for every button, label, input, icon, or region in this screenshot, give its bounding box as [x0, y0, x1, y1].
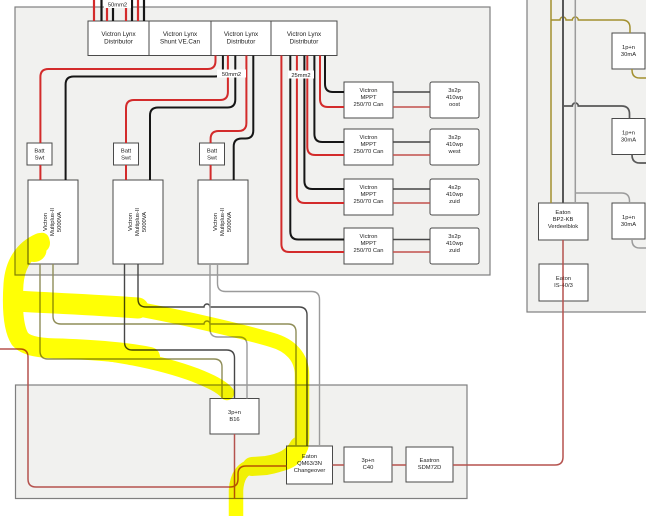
wire DC+ distributor to MPPT U4: [320, 56, 344, 108]
svg-text:50mm2: 50mm2: [108, 3, 127, 9]
wire DC+ distributor to battery switch S1: [40, 56, 215, 144]
wire battery positive 1: [93, 0, 95, 21]
wire battery negative 1: [100, 0, 102, 21]
svg-text:Victron LynxDistributor: Victron LynxDistributor: [224, 31, 259, 46]
inverter U1 Victron Multiplus-II: [28, 180, 78, 264]
battery switch S2: [114, 143, 139, 165]
PV array PV4 zuid: [430, 228, 479, 264]
RCD breaker F1 1p+n 30mA: [612, 33, 645, 69]
wire AC inverter U2 to breaker B16: [125, 264, 235, 399]
energy meter Eastron SDM72D: [406, 447, 453, 482]
svg-text:25mm2: 25mm2: [291, 73, 310, 79]
main switch Eaton IS-40/3: [539, 264, 588, 301]
wire DC- distributor to MPPT U4: [325, 56, 344, 93]
inverter U2 Victron Multiplus-II: [113, 180, 163, 264]
Victron Lynx Shunt VE.Can D2: [149, 21, 211, 56]
charge controller U6 Victron MPPT: [344, 179, 393, 215]
label 25mm2 MPPT cables: [288, 71, 314, 80]
svg-text:1p+n30mA: 1p+n30mA: [621, 45, 636, 58]
charge controller U7 Victron MPPT: [344, 228, 393, 264]
Victron Lynx Distributor D3: [211, 21, 271, 56]
wire AC inverter U1 to breaker B16: [40, 264, 222, 399]
svg-text:Victron LynxShunt VE.Can: Victron LynxShunt VE.Can: [160, 31, 200, 46]
svg-text:EastronSDM72D: EastronSDM72D: [418, 458, 442, 471]
svg-text:1p+n30mA: 1p+n30mA: [621, 131, 636, 144]
wire battery negative 3: [131, 0, 133, 21]
wire breaker B16 down: [234, 434, 236, 499]
label 50mm2 battery cables: [104, 0, 131, 9]
wire battery switch S3 to inverter U3: [210, 165, 212, 180]
wire PV+ MPPT U6 to array PV3: [393, 202, 430, 204]
wire RCD F3 output: [632, 239, 646, 248]
battery switch S1: [27, 143, 52, 165]
svg-text:BattSwt: BattSwt: [34, 149, 45, 162]
wire DC+ distributor to battery switch S3: [211, 56, 247, 144]
wire L2 branch to RCD F2: [563, 103, 630, 118]
wire PV- MPPT U5 to array PV2: [393, 141, 430, 143]
wire DC+ distributor to MPPT U6: [297, 56, 344, 204]
wire DC- distributor to inverter U2: [150, 56, 235, 181]
wire DC- distributor to MPPT U5: [314, 56, 344, 143]
wire L3 branch to RCD F3: [575, 193, 629, 203]
wire L1 branch to RCD F1: [551, 17, 630, 33]
highlighter hook stroke to B16: [11, 240, 227, 393]
main DC panel: [15, 7, 490, 275]
wire L3 riser: [574, 0, 576, 203]
highlighter upper band fat overlay: [16, 301, 138, 308]
wire battery negative 4: [143, 0, 145, 21]
wire PV+ MPPT U7 to array PV4: [393, 251, 430, 253]
Victron Lynx Distributor D1: [88, 21, 149, 56]
wire PV- MPPT U4 to array PV1: [393, 91, 430, 93]
wire DC- distributor to MPPT U7: [290, 56, 344, 240]
wire RCD F2 output: [632, 155, 646, 164]
wire PV- MPPT U6 to array PV3: [393, 188, 430, 190]
svg-text:BattSwt: BattSwt: [207, 149, 218, 162]
wire DC+ distributor to battery switch S2: [126, 56, 228, 144]
wire battery positive 4: [137, 0, 139, 21]
wire AC inverter U2 to changeover: [138, 264, 307, 446]
inverter U3 Victron Multiplus-II: [198, 180, 248, 264]
breaker 3p+n B16: [210, 399, 259, 435]
battery switch S3: [200, 143, 225, 165]
PV array PV1 oost: [430, 82, 479, 118]
svg-text:BattSwt: BattSwt: [121, 149, 132, 162]
changeover switch Eaton QM63/3N: [287, 446, 333, 484]
wire C40 to meter SDM72D: [392, 464, 406, 466]
highlighter blob start: [22, 238, 47, 262]
wire AC inverter U1 to changeover: [53, 264, 296, 446]
wire DC- distributor to MPPT U6: [304, 56, 344, 190]
svg-text:Victron LynxDistributor: Victron LynxDistributor: [101, 31, 136, 46]
wire DC- distributor to inverter U3: [234, 56, 254, 181]
svg-text:Victron LynxDistributor: Victron LynxDistributor: [287, 31, 322, 46]
wire meter SDM72D to main switch IS-40/3: [453, 240, 563, 465]
wire L2 riser: [562, 0, 564, 203]
wire battery positive 3: [125, 0, 127, 21]
Victron Lynx Distributor D4: [271, 21, 337, 56]
wire battery switch S2 to inverter U2: [125, 165, 127, 180]
RCD breaker F2 1p+n 30mA: [612, 119, 645, 155]
AC distribution panel (right): [527, 0, 646, 312]
label 50mm2 inverter cables: [217, 70, 246, 79]
wire DC+ distributor to MPPT U7: [281, 56, 344, 253]
RCD breaker F3 1p+n 30mA: [612, 203, 645, 239]
wire RCD F1 output: [632, 69, 646, 78]
wire DC+ distributor to MPPT U5: [307, 56, 344, 156]
AC panel (bottom): [16, 385, 468, 499]
wire DC- distributor to inverter U1: [66, 56, 223, 181]
PV array PV2 west: [430, 129, 479, 165]
highlighter turn bulge at changeover: [252, 446, 299, 467]
wire battery positive 2: [106, 0, 108, 21]
wire battery negative 2: [112, 0, 114, 21]
wire AC inverter U3 to breaker B16: [210, 264, 247, 399]
wire AC inverter U3 to changeover: [218, 264, 320, 446]
wire PV- MPPT U7 to array PV4: [393, 239, 430, 241]
svg-text:3p+nB16: 3p+nB16: [228, 410, 241, 423]
wire grid feed loop to changeover: [0, 349, 287, 487]
highlighter upper stroke to changeover and bottom: [14, 300, 302, 516]
busbar Eaton BP2-KB Verdeelblok: [539, 203, 589, 240]
charge controller U5 Victron MPPT: [344, 129, 393, 165]
highlighter hook fat overlay: [13, 243, 150, 357]
charge controller U4 Victron MPPT: [344, 82, 393, 118]
svg-text:1p+n30mA: 1p+n30mA: [621, 215, 636, 228]
breaker 3p+n C40: [344, 447, 392, 482]
wire L1 riser: [550, 0, 552, 203]
wire changeover to C40: [333, 464, 345, 466]
svg-text:50mm2: 50mm2: [222, 72, 241, 78]
wire battery switch S1 to inverter U1: [39, 165, 41, 180]
wire PV+ MPPT U4 to array PV1: [393, 106, 430, 108]
PV array PV3 zuid: [430, 179, 479, 215]
wire PV+ MPPT U5 to array PV2: [393, 154, 430, 156]
svg-text:3p+nC40: 3p+nC40: [361, 458, 374, 471]
